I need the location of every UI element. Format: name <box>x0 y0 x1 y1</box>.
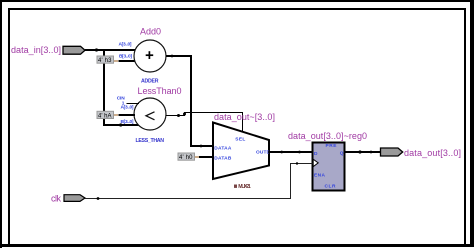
comparator LessThan0 <box>117 86 182 144</box>
svg-text:data_out[3..0]~reg0: data_out[3..0]~reg0 <box>288 131 367 141</box>
svg-text:ADDER: ADDER <box>141 79 159 85</box>
svg-text:data_out~[3..0]: data_out~[3..0] <box>214 112 275 122</box>
svg-text:B[3..0]: B[3..0] <box>121 119 134 125</box>
tick clk pin <box>296 162 298 164</box>
tick mux outd <box>280 151 283 154</box>
svg-text:OUTD: OUTD <box>256 150 271 156</box>
register data_out[3..0]~reg0 <box>288 131 367 191</box>
input port clk <box>51 194 85 204</box>
svg-text:CIN: CIN <box>117 95 126 101</box>
junction dot clk <box>97 197 100 200</box>
svg-text:ENA: ENA <box>314 172 326 178</box>
svg-text:4' h3: 4' h3 <box>98 58 112 64</box>
svg-text:D: D <box>314 151 318 157</box>
svg-text:B[3..0]: B[3..0] <box>119 54 132 60</box>
stub CIN <box>127 103 140 105</box>
svg-text:DATAA: DATAA <box>214 146 232 152</box>
tick adder out <box>171 55 174 58</box>
svg-text:CLR: CLR <box>325 184 337 190</box>
svg-text:4' hA: 4' hA <box>98 114 112 120</box>
wire Add0 out to mux DATAA <box>166 56 213 146</box>
svg-text:data_out[3..0]: data_out[3..0] <box>404 148 461 158</box>
svg-text:A[3..0]: A[3..0] <box>121 105 134 111</box>
wire 4'hA to lessthan A <box>119 114 136 116</box>
wire 4'h0 to mux DATAB <box>199 156 213 158</box>
wire data_in bus <box>85 50 139 125</box>
mux data_out~[3..0] <box>213 123 271 191</box>
adder Add0 <box>119 27 167 85</box>
clock triangle <box>313 159 318 166</box>
svg-text:Q: Q <box>340 150 344 156</box>
junction dot q <box>358 150 361 153</box>
input port data_in[3..0] <box>11 45 85 55</box>
tick q2 <box>370 151 373 154</box>
svg-text:Add0: Add0 <box>140 27 161 37</box>
constant 4'h0 <box>178 153 199 161</box>
junction dot data_in <box>95 48 98 51</box>
svg-text:DATAB: DATAB <box>214 156 232 162</box>
output port data_out[3..0] <box>381 148 462 158</box>
svg-text:LESS_THAN: LESS_THAN <box>136 138 165 144</box>
type icon <box>234 185 237 188</box>
junction dot lessthan B <box>119 123 122 126</box>
junction dot sel bend <box>183 113 186 116</box>
svg-text:PRE: PRE <box>326 143 338 149</box>
junction dot lessthan out <box>177 114 180 117</box>
svg-text:MUX21: MUX21 <box>238 184 251 190</box>
svg-text:4' h0: 4' h0 <box>179 155 193 161</box>
svg-text:A[3..0]: A[3..0] <box>119 42 132 48</box>
tick mux dataa <box>200 145 203 148</box>
constant 4'hA <box>97 111 118 119</box>
tick reg d <box>298 151 301 154</box>
svg-text:clk: clk <box>51 194 62 204</box>
wire LessThan0 out to mux SEL <box>166 113 243 132</box>
svg-text:LessThan0: LessThan0 <box>138 86 182 96</box>
svg-text:SEL: SEL <box>235 136 245 142</box>
wire mux OUTD to register D <box>269 151 313 153</box>
svg-text:data_in[3..0]: data_in[3..0] <box>11 45 61 55</box>
wire clk to register clock <box>85 164 313 199</box>
constant 4'h3 <box>97 56 118 64</box>
wire register Q to output port <box>345 151 381 153</box>
wire 4'h3 to adder B <box>119 60 137 62</box>
